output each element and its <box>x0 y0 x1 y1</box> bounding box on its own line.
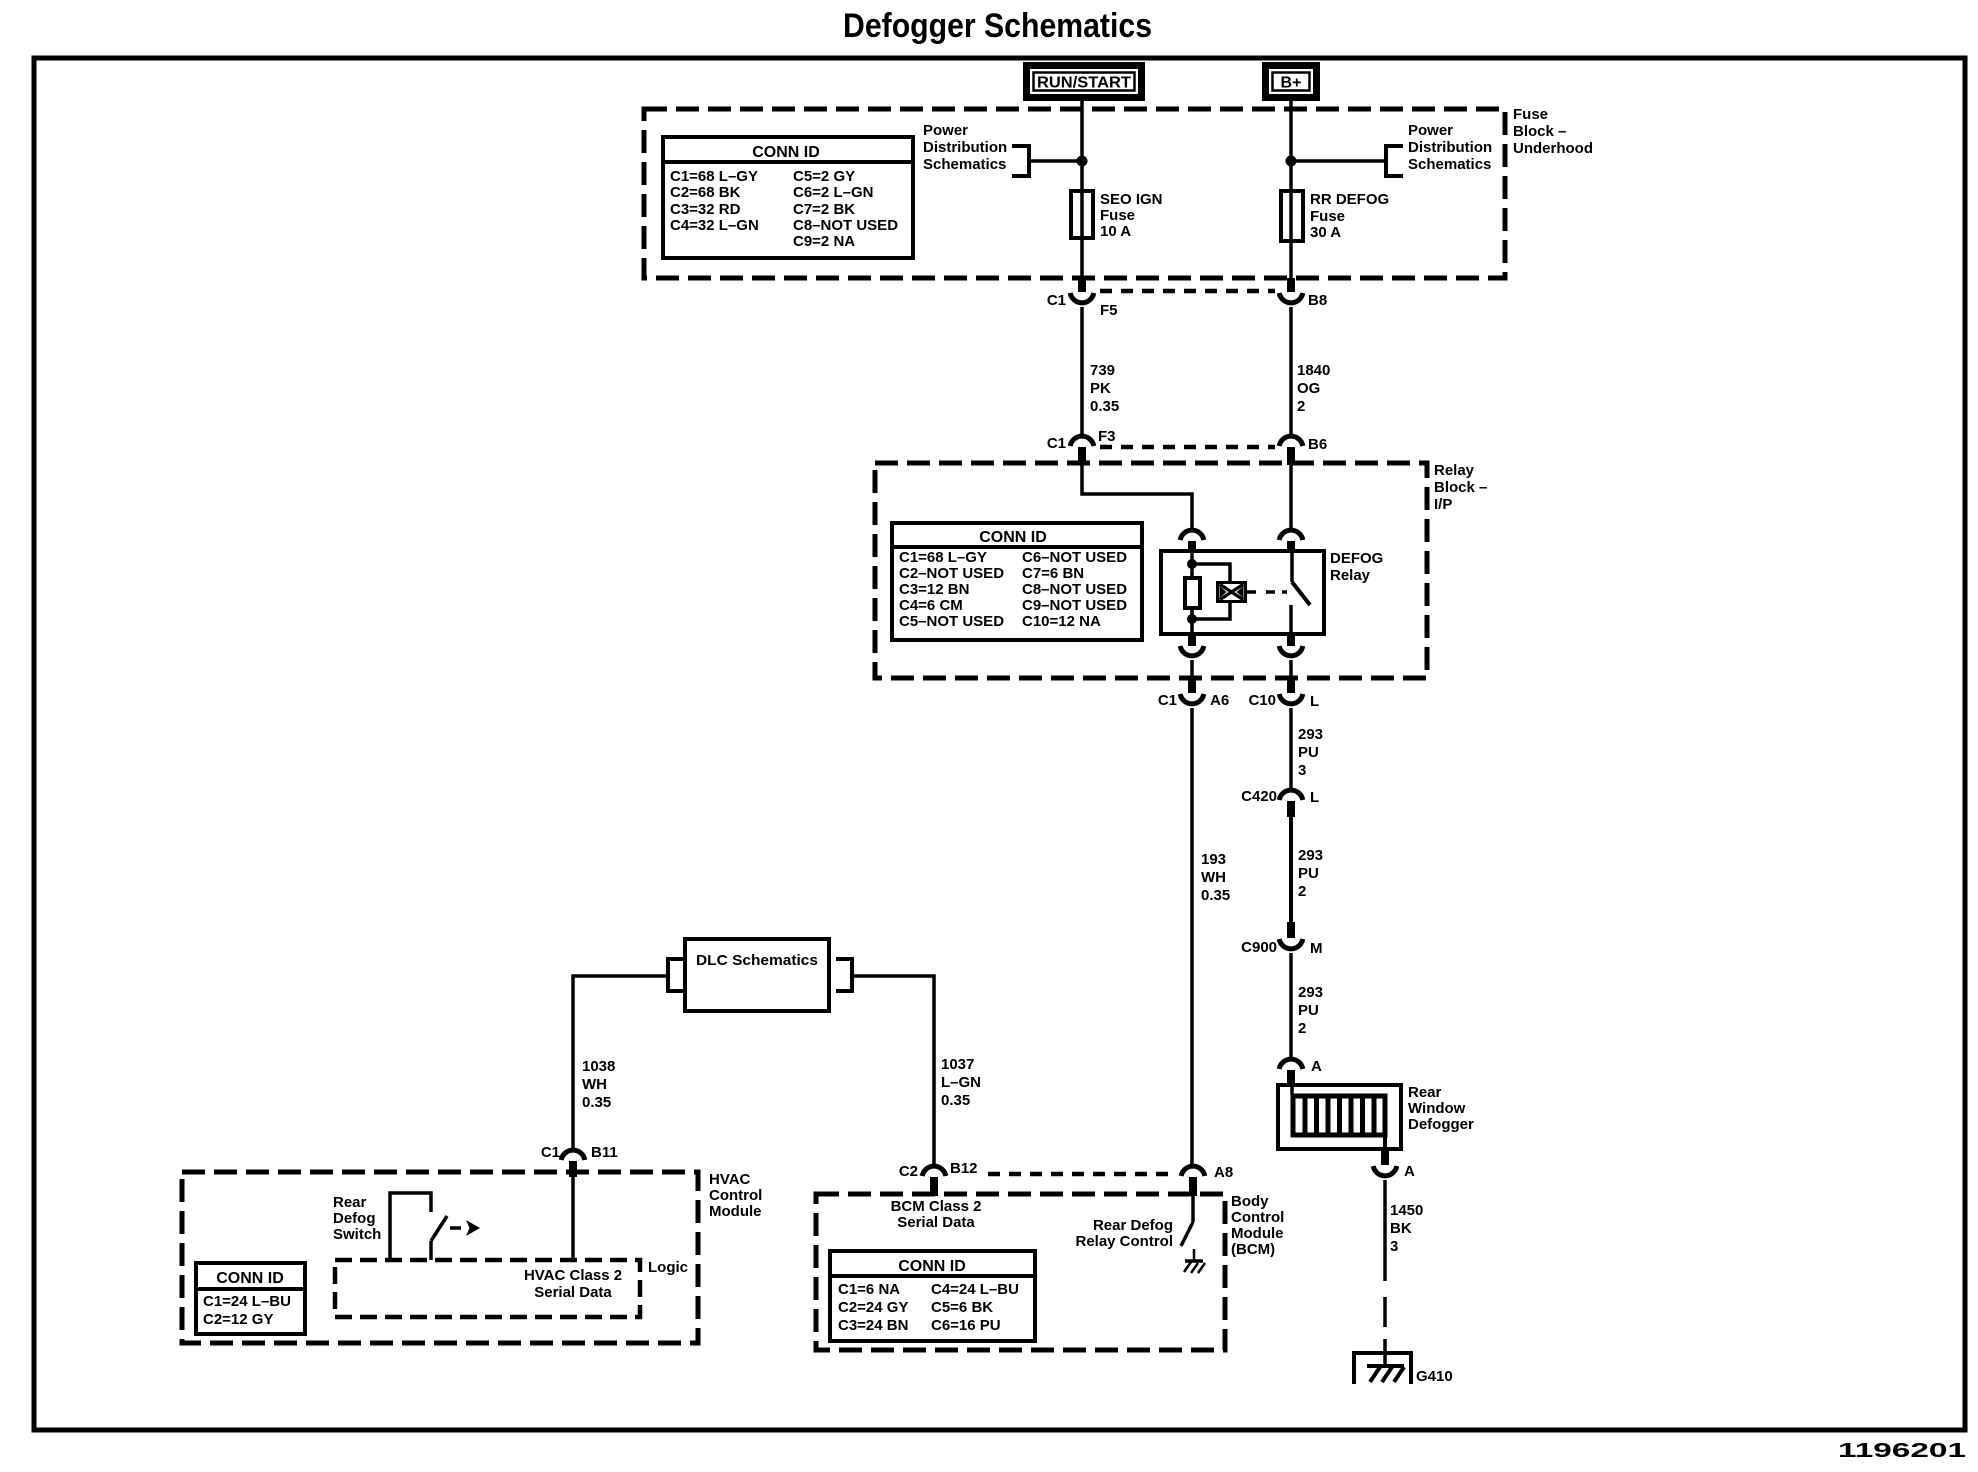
fuse block underhood dashed box <box>644 109 1505 278</box>
wire: 1450 circuit to ground <box>1383 1180 1387 1366</box>
svg-text:Relay: Relay <box>1434 462 1475 479</box>
svg-text:C1: C1 <box>541 1144 560 1161</box>
ground (BCM internal) <box>1184 1249 1205 1273</box>
connector pin A8 <box>1181 1164 1233 1196</box>
svg-text:CONN ID: CONN ID <box>898 1258 966 1275</box>
svg-text:C8–NOT USED: C8–NOT USED <box>793 217 898 234</box>
svg-text:RR DEFOG: RR DEFOG <box>1310 191 1389 208</box>
fuse RR DEFOG 30 A <box>1281 191 1389 241</box>
svg-text:A8: A8 <box>1214 1164 1233 1181</box>
svg-text:F5: F5 <box>1100 302 1118 319</box>
connector C2 pin B12 <box>899 1160 978 1196</box>
svg-text:B12: B12 <box>950 1160 978 1177</box>
svg-text:(BCM): (BCM) <box>1231 1241 1275 1258</box>
svg-text:PU: PU <box>1298 1002 1319 1019</box>
svg-text:Logic: Logic <box>648 1259 688 1276</box>
svg-text:1038: 1038 <box>582 1058 615 1075</box>
wire label 293 PU 2 <box>1298 984 1323 1037</box>
svg-text:293: 293 <box>1298 984 1323 1001</box>
svg-text:Rear: Rear <box>1408 1084 1442 1101</box>
relay block I/P dashed box <box>875 463 1427 678</box>
svg-text:DLC Schematics: DLC Schematics <box>696 952 818 969</box>
svg-text:WH: WH <box>1201 869 1226 886</box>
svg-text:PU: PU <box>1298 865 1319 882</box>
svg-text:10 A: 10 A <box>1100 223 1131 240</box>
wire: F3 into relay block, jog to coil <box>1082 465 1192 529</box>
wire: coil lower lead to block edge <box>1190 660 1194 679</box>
svg-text:L: L <box>1310 789 1319 806</box>
node: coil top junction <box>1187 559 1197 569</box>
dashed harness line B12 to A8 <box>988 1172 1177 1177</box>
svg-text:Underhood: Underhood <box>1513 140 1593 157</box>
svg-text:Rear: Rear <box>333 1194 367 1211</box>
svg-text:WH: WH <box>582 1076 607 1093</box>
svg-text:193: 193 <box>1201 851 1226 868</box>
svg-text:BK: BK <box>1390 1220 1412 1237</box>
svg-text:C3=32 RD: C3=32 RD <box>670 201 741 218</box>
svg-text:B6: B6 <box>1308 436 1327 453</box>
svg-text:CONN ID: CONN ID <box>979 529 1047 546</box>
svg-text:C4=32 L–GN: C4=32 L–GN <box>670 217 759 234</box>
svg-text:CONN ID: CONN ID <box>752 144 820 161</box>
wire: 293 circuit C420 to C900 <box>1289 817 1293 922</box>
svg-text:C3=12 BN: C3=12 BN <box>899 581 969 598</box>
relay switch contact <box>1291 551 1310 634</box>
svg-text:Control: Control <box>709 1187 762 1204</box>
svg-text:C1=68 L–GY: C1=68 L–GY <box>670 168 758 185</box>
svg-text:Schematics: Schematics <box>1408 156 1491 173</box>
BCM dashed box <box>816 1194 1225 1350</box>
wire label 1450 BK 3 <box>1390 1202 1423 1255</box>
node: junction on SEO IGN feed <box>1077 156 1088 167</box>
wire: right power dist tap <box>1293 159 1386 163</box>
svg-text:Distribution: Distribution <box>1408 139 1492 156</box>
svg-text:C3=24 BN: C3=24 BN <box>838 1317 908 1334</box>
svg-text:Power: Power <box>923 122 968 139</box>
wire label 293 PU 2 <box>1298 847 1323 900</box>
svg-text:C1: C1 <box>1047 435 1066 452</box>
svg-text:C5–NOT USED: C5–NOT USED <box>899 613 1004 630</box>
svg-text:L–GN: L–GN <box>941 1074 981 1091</box>
svg-text:Defogger: Defogger <box>1408 1116 1474 1133</box>
connector: relay socket coil side lower <box>1180 634 1204 656</box>
node RUN/START <box>1023 62 1145 101</box>
connector C10 pin L <box>1248 678 1319 710</box>
rear defog switch <box>333 1193 480 1260</box>
label: Relay Block - I/P <box>1434 462 1487 513</box>
svg-text:C1=6 NA: C1=6 NA <box>838 1281 900 1298</box>
svg-text:0.35: 0.35 <box>941 1092 970 1109</box>
svg-text:M: M <box>1310 940 1323 957</box>
svg-text:3: 3 <box>1298 762 1306 779</box>
svg-text:0.35: 0.35 <box>1201 887 1230 904</box>
svg-text:Switch: Switch <box>333 1226 381 1243</box>
connector pin A (defogger feed) <box>1279 1058 1322 1086</box>
svg-text:A6: A6 <box>1210 692 1229 709</box>
connector pin B6 <box>1279 436 1327 465</box>
wire: coil leg top <box>1190 551 1194 578</box>
svg-text:CONN ID: CONN ID <box>216 1270 284 1287</box>
wire: 293 circuit C900 to defogger <box>1289 953 1293 1059</box>
svg-text:C2=12 GY: C2=12 GY <box>203 1311 273 1328</box>
svg-text:A: A <box>1404 1163 1415 1180</box>
svg-text:C2=68 BK: C2=68 BK <box>670 184 741 201</box>
svg-text:C10=12 NA: C10=12 NA <box>1022 613 1101 630</box>
logic box (HVAC) <box>335 1259 688 1317</box>
connector C1 pin B11 <box>541 1144 618 1177</box>
wire: switch lower lead to block edge <box>1289 660 1293 679</box>
svg-text:C10: C10 <box>1248 692 1276 709</box>
svg-text:C6=16 PU: C6=16 PU <box>931 1317 1001 1334</box>
svg-text:C9–NOT USED: C9–NOT USED <box>1022 597 1127 614</box>
wire label 1037 L-GN 0.35 <box>941 1056 981 1109</box>
wire: 739 circuit F5 to F3 <box>1080 307 1084 436</box>
HVAC control module dashed box <box>182 1172 698 1343</box>
svg-text:DEFOG: DEFOG <box>1330 550 1383 567</box>
svg-text:C7=6 BN: C7=6 BN <box>1022 565 1084 582</box>
svg-text:0.35: 0.35 <box>1090 398 1119 415</box>
conn id table (HVAC) <box>196 1263 305 1334</box>
svg-text:C6=2 L–GN: C6=2 L–GN <box>793 184 873 201</box>
svg-text:Defog: Defog <box>333 1210 376 1227</box>
svg-text:C5=2 GY: C5=2 GY <box>793 168 855 185</box>
power distribution schematics reference (left) <box>923 122 1029 176</box>
connector: relay socket switch side <box>1279 530 1303 553</box>
svg-text:Relay Control: Relay Control <box>1075 1233 1173 1250</box>
node B+ <box>1262 62 1320 101</box>
connector pin A (defogger ground side) <box>1373 1149 1415 1180</box>
svg-text:Defogger Schematics: Defogger Schematics <box>843 7 1152 45</box>
svg-text:Power: Power <box>1408 122 1453 139</box>
wire: B11 to logic <box>571 1177 575 1260</box>
label: Body Control Module (BCM) <box>1231 1193 1284 1258</box>
power distribution schematics reference (right) <box>1386 122 1492 176</box>
svg-text:C420: C420 <box>1241 788 1277 805</box>
conn id table (fuse block) <box>663 137 913 258</box>
relay suppression diode <box>1216 581 1247 603</box>
svg-text:F3: F3 <box>1098 428 1116 445</box>
dashed harness line F3 to B6 <box>1100 445 1275 450</box>
svg-text:Fuse: Fuse <box>1100 207 1135 224</box>
svg-text:B+: B+ <box>1281 75 1302 92</box>
svg-text:C1=68 L–GY: C1=68 L–GY <box>899 549 987 566</box>
svg-text:Body: Body <box>1231 1193 1269 1210</box>
svg-text:OG: OG <box>1297 380 1320 397</box>
svg-text:C8–NOT USED: C8–NOT USED <box>1022 581 1127 598</box>
svg-text:B8: B8 <box>1308 292 1327 309</box>
svg-text:2: 2 <box>1297 398 1305 415</box>
svg-text:Control: Control <box>1231 1209 1284 1226</box>
label: BCM Class 2 Serial Data <box>891 1198 982 1231</box>
wire: 1840 circuit B8 to B6 <box>1289 307 1293 436</box>
svg-text:2: 2 <box>1298 883 1306 900</box>
rear window defogger grid <box>1278 1084 1474 1149</box>
svg-text:B11: B11 <box>591 1144 618 1161</box>
ground G410 <box>1354 1353 1453 1385</box>
connector C1 pin A6 <box>1158 678 1229 709</box>
svg-text:3: 3 <box>1390 1238 1398 1255</box>
svg-text:Serial Data: Serial Data <box>897 1214 975 1231</box>
svg-text:C4=24 L–BU: C4=24 L–BU <box>931 1281 1019 1298</box>
dashed harness line F5 to B8 <box>1100 289 1275 294</box>
wire: left power dist tap <box>1029 159 1080 163</box>
wire: B6 into relay block to switch <box>1289 465 1293 529</box>
wire label 1840 OG 2 <box>1297 362 1330 415</box>
svg-text:Fuse: Fuse <box>1513 106 1548 123</box>
svg-text:Schematics: Schematics <box>923 156 1006 173</box>
node: coil bottom junction <box>1187 614 1197 624</box>
wire: coil leg bottom <box>1190 608 1194 634</box>
svg-text:Fuse: Fuse <box>1310 208 1345 225</box>
svg-text:1840: 1840 <box>1297 362 1330 379</box>
DLC schematics reference box <box>668 939 852 1011</box>
svg-text:RUN/START: RUN/START <box>1037 75 1131 92</box>
svg-text:PU: PU <box>1298 744 1319 761</box>
conn id table (BCM) <box>830 1251 1035 1341</box>
svg-text:Serial Data: Serial Data <box>534 1284 612 1301</box>
wire label 1038 WH 0.35 <box>582 1058 615 1111</box>
svg-text:Module: Module <box>1231 1225 1284 1242</box>
wire: 1037 circuit DLC to BCM B12 <box>854 976 934 1166</box>
svg-text:I/P: I/P <box>1434 496 1452 513</box>
svg-text:A: A <box>1311 1058 1322 1075</box>
connector C1 pin F3 <box>1047 428 1116 465</box>
svg-text:C6–NOT USED: C6–NOT USED <box>1022 549 1127 566</box>
svg-text:739: 739 <box>1090 362 1115 379</box>
svg-text:Block –: Block – <box>1434 479 1487 496</box>
svg-text:0.35: 0.35 <box>582 1094 611 1111</box>
wire: 193 circuit A6 down to BCM A8 <box>1190 708 1194 1164</box>
label: HVAC Control Module <box>709 1171 762 1220</box>
rear defog relay control driver <box>1075 1196 1193 1250</box>
wire label 193 WH 0.35 <box>1201 851 1230 904</box>
wire label 739 PK 0.35 <box>1090 362 1119 415</box>
svg-text:30 A: 30 A <box>1310 224 1341 241</box>
svg-text:Relay: Relay <box>1330 567 1371 584</box>
connector C900 pin M <box>1241 922 1322 957</box>
svg-text:C1=24 L–BU: C1=24 L–BU <box>203 1293 291 1310</box>
wire: 1038 circuit DLC to HVAC B11 <box>573 976 666 1150</box>
connector pin B8 <box>1279 278 1327 309</box>
wire: RUN/START feed down through fuse block <box>1080 101 1084 278</box>
relay coil (resistor) <box>1185 578 1200 608</box>
svg-text:293: 293 <box>1298 847 1323 864</box>
svg-text:BCM Class 2: BCM Class 2 <box>891 1198 982 1215</box>
fuse SEO IGN 10 A <box>1071 191 1163 240</box>
svg-text:C9=2 NA: C9=2 NA <box>793 233 855 250</box>
svg-text:Window: Window <box>1408 1100 1466 1117</box>
svg-text:Block –: Block – <box>1513 123 1566 140</box>
svg-text:L: L <box>1310 693 1319 710</box>
svg-text:C2: C2 <box>899 1163 918 1180</box>
connector C420 pin L <box>1241 788 1319 817</box>
svg-text:C1: C1 <box>1047 292 1066 309</box>
svg-text:Distribution: Distribution <box>923 139 1007 156</box>
wire: B+ feed down through fuse block <box>1289 101 1293 278</box>
conn id table (relay block) <box>892 523 1142 640</box>
svg-text:C2=24 GY: C2=24 GY <box>838 1299 908 1316</box>
connector C1 pin F5 <box>1047 278 1118 319</box>
connector: relay socket coil side <box>1180 530 1204 553</box>
svg-text:Module: Module <box>709 1203 762 1220</box>
svg-text:C4=6 CM: C4=6 CM <box>899 597 963 614</box>
svg-text:293: 293 <box>1298 726 1323 743</box>
svg-text:C5=6 BK: C5=6 BK <box>931 1299 993 1316</box>
svg-text:C2–NOT USED: C2–NOT USED <box>899 565 1004 582</box>
svg-text:C1: C1 <box>1158 692 1177 709</box>
svg-text:2: 2 <box>1298 1020 1306 1037</box>
svg-text:Rear Defog: Rear Defog <box>1093 1217 1173 1234</box>
relay DEFOG Relay <box>1161 550 1383 634</box>
svg-text:1037: 1037 <box>941 1056 974 1073</box>
node: junction on RR DEFOG feed <box>1286 156 1297 167</box>
svg-text:C7=2 BK: C7=2 BK <box>793 201 855 218</box>
svg-text:1196201: 1196201 <box>1838 1440 1966 1462</box>
svg-text:C900: C900 <box>1241 939 1277 956</box>
svg-text:G410: G410 <box>1416 1368 1453 1385</box>
wire: 293 circuit L to C420 <box>1289 708 1293 790</box>
svg-text:PK: PK <box>1090 380 1111 397</box>
mechanical link coil to contact <box>1247 590 1287 594</box>
svg-text:1450: 1450 <box>1390 1202 1423 1219</box>
svg-text:SEO IGN: SEO IGN <box>1100 191 1163 208</box>
svg-text:HVAC: HVAC <box>709 1171 751 1188</box>
wire: suppression diode branch <box>1192 564 1230 619</box>
svg-text:HVAC Class 2: HVAC Class 2 <box>524 1267 622 1284</box>
wire label 293 PU 3 <box>1298 726 1323 779</box>
label: Fuse Block - Underhood <box>1513 106 1593 157</box>
connector: relay socket switch side lower <box>1279 634 1303 656</box>
